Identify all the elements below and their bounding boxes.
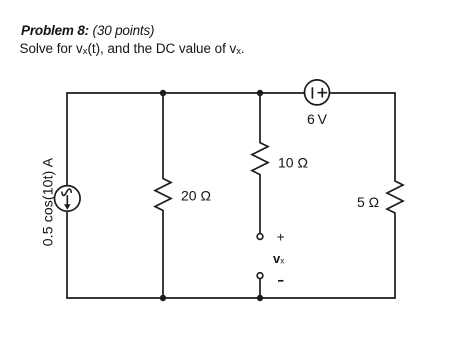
svg-text:5 Ω: 5 Ω bbox=[357, 194, 379, 210]
svg-text:0.5 cos(10t) A: 0.5 cos(10t) A bbox=[40, 157, 56, 246]
svg-text:20 Ω: 20 Ω bbox=[181, 188, 211, 204]
svg-text:6 V: 6 V bbox=[307, 111, 328, 127]
svg-text:vx: vx bbox=[273, 251, 284, 266]
svg-text:10 Ω: 10 Ω bbox=[278, 155, 308, 171]
svg-text:+: + bbox=[277, 230, 285, 245]
